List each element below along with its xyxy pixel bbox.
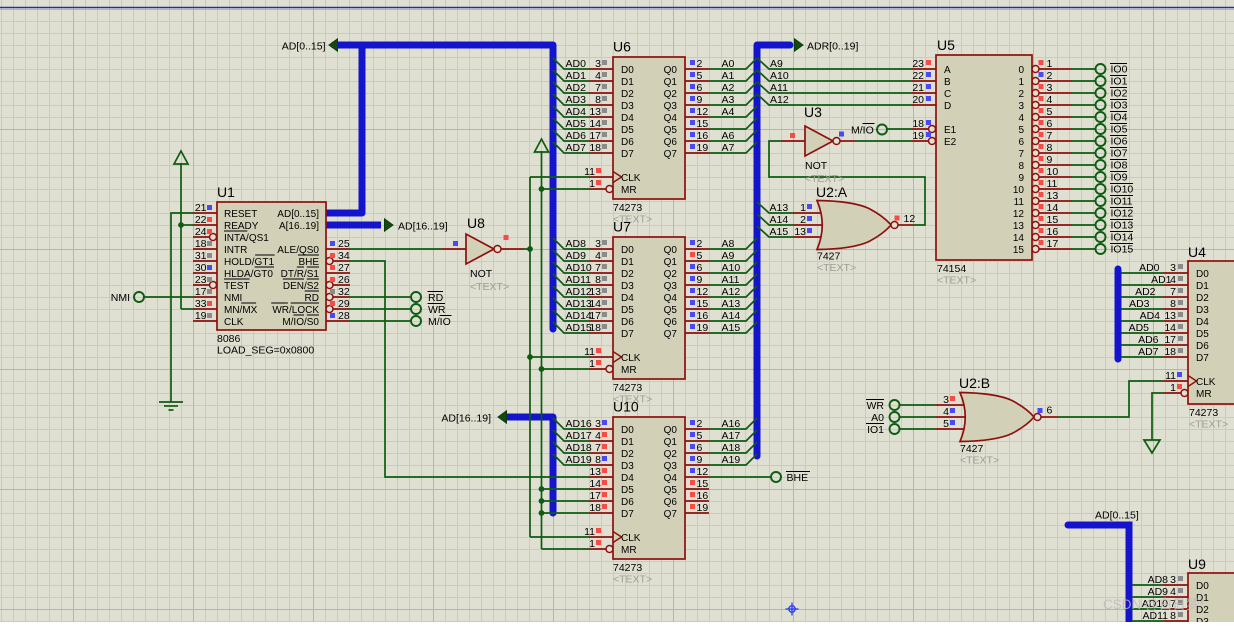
svg-text:D4: D4 xyxy=(1196,317,1209,328)
svg-text:CLK: CLK xyxy=(1196,377,1216,388)
wires terminals to U2:B inputs xyxy=(899,404,936,406)
wires A13 A14 A15 from ADR bus to U2:A inputs xyxy=(757,202,793,213)
svg-text:AD14: AD14 xyxy=(566,310,592,322)
svg-text:MN/MX: MN/MX xyxy=(224,305,258,316)
svg-text:3: 3 xyxy=(1170,574,1176,586)
svg-text:AD17: AD17 xyxy=(566,430,592,442)
svg-text:3: 3 xyxy=(595,418,601,430)
svg-text:7: 7 xyxy=(595,262,601,274)
svg-text:D6: D6 xyxy=(621,137,634,148)
terminal IO3 xyxy=(1096,100,1106,110)
svg-text:2: 2 xyxy=(697,58,703,70)
svg-text:D3: D3 xyxy=(621,101,634,112)
svg-text:IO14: IO14 xyxy=(1111,232,1134,244)
ground symbol below U1 xyxy=(159,401,183,403)
svg-text:14: 14 xyxy=(589,298,601,310)
svg-text:0: 0 xyxy=(1018,65,1024,76)
svg-text:AD12: AD12 xyxy=(566,286,592,298)
svg-text:7: 7 xyxy=(1170,286,1176,298)
state square at U3 input xyxy=(790,133,795,138)
wires AD0..AD7 from bus stub to U4 xyxy=(1121,272,1164,274)
svg-text:6: 6 xyxy=(1047,405,1053,417)
wire U1 RESET to ground xyxy=(171,213,193,402)
wire A9 from ADR bus to U5 xyxy=(757,58,912,69)
wire U1 WR to terminal xyxy=(350,308,411,310)
terminal IO7 xyxy=(1096,148,1106,158)
svg-text:1: 1 xyxy=(589,358,595,370)
junction VCC at U10 D7 xyxy=(539,510,545,516)
svg-text:12: 12 xyxy=(1013,209,1025,220)
wire U8 output to ALE vertical xyxy=(524,248,530,250)
svg-text:IO8: IO8 xyxy=(1111,160,1128,172)
svg-text:19: 19 xyxy=(697,502,709,514)
wire U5 output 12 to terminal IO12 xyxy=(1072,212,1096,214)
svg-text:A16: A16 xyxy=(722,418,741,430)
terminal BHE xyxy=(771,472,781,482)
state square at U2:A output xyxy=(895,216,900,221)
svg-text:19: 19 xyxy=(195,310,207,322)
svg-text:AD2: AD2 xyxy=(1135,286,1156,298)
wire U1 ALE/QS0 to U8 input xyxy=(350,248,442,250)
terminal IO5 xyxy=(1096,124,1106,134)
ALE vertical wire to latch clocks xyxy=(529,177,531,537)
svg-text:BHE: BHE xyxy=(298,257,319,268)
svg-text:U2:A: U2:A xyxy=(816,184,848,200)
svg-text:A9: A9 xyxy=(770,58,783,70)
state square at U8 output xyxy=(504,235,509,240)
svg-text:Q6: Q6 xyxy=(664,317,678,328)
svg-text:<TEXT>: <TEXT> xyxy=(613,574,652,586)
svg-text:7: 7 xyxy=(595,82,601,94)
svg-text:D2: D2 xyxy=(621,449,634,460)
svg-text:D2: D2 xyxy=(621,89,634,100)
svg-text:23: 23 xyxy=(195,274,207,286)
svg-text:M/IO/S0: M/IO/S0 xyxy=(282,317,319,328)
svg-text:RESET: RESET xyxy=(224,209,257,220)
svg-text:18: 18 xyxy=(195,238,207,250)
terminal WR at U2:B xyxy=(890,400,900,410)
svg-text:22: 22 xyxy=(912,70,924,82)
svg-text:13: 13 xyxy=(589,466,601,478)
svg-text:D7: D7 xyxy=(1196,353,1209,364)
terminal IO13 xyxy=(1096,220,1106,230)
bus entry arrow ADR[0..19] xyxy=(795,39,804,51)
svg-text:U6: U6 xyxy=(613,39,631,55)
svg-text:Q6: Q6 xyxy=(664,497,678,508)
svg-text:A15: A15 xyxy=(770,226,789,238)
wire U5 output 5 to terminal IO5 xyxy=(1072,128,1096,130)
svg-text:Q1: Q1 xyxy=(664,437,678,448)
wire A12 from ADR bus to U5 xyxy=(757,94,912,105)
terminal IO12 xyxy=(1096,208,1106,218)
svg-text:IO13: IO13 xyxy=(1111,220,1134,232)
svg-text:26: 26 xyxy=(338,274,350,286)
svg-text:8: 8 xyxy=(1018,161,1024,172)
svg-text:AD[0..15]: AD[0..15] xyxy=(1095,510,1139,522)
wire U1 RD to terminal xyxy=(350,296,411,298)
svg-text:18: 18 xyxy=(589,142,601,154)
svg-text:16: 16 xyxy=(697,490,709,502)
wire U5 output 8 to terminal IO8 xyxy=(1072,164,1096,166)
nor-gate U2:A 7427 xyxy=(793,184,913,274)
wire U4 MR to ground xyxy=(1152,393,1164,440)
wire U5 output 7 to terminal IO7 xyxy=(1072,152,1096,154)
svg-text:16: 16 xyxy=(697,130,709,142)
svg-text:19: 19 xyxy=(697,142,709,154)
svg-text:<TEXT>: <TEXT> xyxy=(470,281,509,293)
svg-text:AD18: AD18 xyxy=(566,442,592,454)
terminal WR xyxy=(411,304,421,314)
wire M/IO terminal to U5 E1 xyxy=(887,128,913,130)
svg-text:19: 19 xyxy=(912,130,924,142)
svg-text:A13: A13 xyxy=(722,298,741,310)
svg-text:2: 2 xyxy=(697,238,703,250)
svg-text:7427: 7427 xyxy=(817,251,841,263)
svg-text:5: 5 xyxy=(697,250,703,262)
bus entry arrow AD[0..15] top-left xyxy=(329,39,338,51)
svg-text:MR: MR xyxy=(1196,389,1212,400)
svg-text:Q3: Q3 xyxy=(664,281,678,292)
svg-text:9: 9 xyxy=(1047,154,1053,166)
wire U5 output 3 to terminal IO3 xyxy=(1072,104,1096,106)
svg-text:D6: D6 xyxy=(1196,341,1209,352)
svg-text:Q2: Q2 xyxy=(664,89,678,100)
svg-text:A17: A17 xyxy=(722,430,741,442)
svg-text:Q3: Q3 xyxy=(664,101,678,112)
svg-text:NOT: NOT xyxy=(470,268,493,280)
svg-text:9: 9 xyxy=(1018,173,1024,184)
svg-text:11: 11 xyxy=(584,526,595,538)
svg-text:IO4: IO4 xyxy=(1111,112,1128,124)
svg-text:D5: D5 xyxy=(621,305,634,316)
state square at U8 input xyxy=(453,241,458,246)
svg-text:11: 11 xyxy=(1047,178,1058,190)
svg-text:Q2: Q2 xyxy=(664,269,678,280)
svg-text:5: 5 xyxy=(697,70,703,82)
terminal IO0 xyxy=(1096,64,1106,74)
wire A10 from ADR bus to U5 xyxy=(757,70,912,81)
svg-text:23: 23 xyxy=(912,58,924,70)
junction ALE feed xyxy=(527,246,533,252)
svg-text:15: 15 xyxy=(1047,214,1059,226)
svg-text:AD3: AD3 xyxy=(566,94,587,106)
svg-text:U2:B: U2:B xyxy=(959,375,990,391)
svg-text:3: 3 xyxy=(1047,82,1053,94)
svg-text:D1: D1 xyxy=(1196,281,1209,292)
svg-text:D1: D1 xyxy=(621,437,634,448)
svg-text:17: 17 xyxy=(195,286,207,298)
svg-text:AD4: AD4 xyxy=(1140,310,1161,322)
svg-text:A8: A8 xyxy=(722,238,735,250)
svg-text:A[16..19]: A[16..19] xyxy=(279,221,319,232)
svg-text:AD[16..19]: AD[16..19] xyxy=(441,413,491,425)
cpu U1 8086 xyxy=(193,184,350,357)
svg-text:2: 2 xyxy=(697,418,703,430)
svg-text:Q7: Q7 xyxy=(664,509,678,520)
svg-text:D7: D7 xyxy=(621,509,634,520)
svg-text:28: 28 xyxy=(338,310,350,322)
wire U5 output 1 to terminal IO1 xyxy=(1072,80,1096,82)
terminal IO11 xyxy=(1096,196,1106,206)
svg-text:D1: D1 xyxy=(621,257,634,268)
nor-gate U2:B 7427 xyxy=(936,375,1057,467)
state square at U3 output xyxy=(839,132,844,137)
svg-text:14: 14 xyxy=(589,478,601,490)
svg-text:AD4: AD4 xyxy=(566,106,587,118)
svg-text:TEST: TEST xyxy=(224,281,250,292)
not-gate U3 xyxy=(781,104,856,185)
svg-text:31: 31 xyxy=(195,250,207,262)
svg-text:U8: U8 xyxy=(467,215,485,231)
terminal IO2 xyxy=(1096,88,1106,98)
svg-text:Q5: Q5 xyxy=(664,125,678,136)
svg-text:8: 8 xyxy=(595,274,601,286)
bus A[16..19] from U1 to arrow xyxy=(326,222,381,229)
power symbol VCC above latch column xyxy=(535,139,549,152)
svg-text:29: 29 xyxy=(338,298,350,310)
svg-text:13: 13 xyxy=(1013,221,1025,232)
terminal IO1 at U2:B xyxy=(890,424,900,434)
svg-text:4: 4 xyxy=(943,406,949,418)
svg-text:AD8: AD8 xyxy=(1148,574,1169,586)
svg-text:A15: A15 xyxy=(722,322,741,334)
svg-text:1: 1 xyxy=(589,538,595,550)
svg-text:5: 5 xyxy=(1047,106,1053,118)
svg-text:11: 11 xyxy=(1014,197,1025,208)
svg-text:A4: A4 xyxy=(722,106,735,118)
svg-text:8: 8 xyxy=(595,94,601,106)
svg-text:Q5: Q5 xyxy=(664,305,678,316)
svg-text:4: 4 xyxy=(1018,113,1024,124)
svg-text:15: 15 xyxy=(697,118,709,130)
svg-text:A11: A11 xyxy=(770,82,788,94)
svg-text:12: 12 xyxy=(697,466,709,478)
svg-text:AD[16..19]: AD[16..19] xyxy=(398,221,448,233)
svg-text:U9: U9 xyxy=(1188,556,1206,572)
svg-text:CLK: CLK xyxy=(224,317,244,328)
wire VCC to U6 MR xyxy=(542,188,590,190)
wires AD8..AD11 from bus to U9 xyxy=(1132,584,1164,586)
svg-text:AD[0..15]: AD[0..15] xyxy=(282,41,326,53)
svg-text:25: 25 xyxy=(338,238,350,250)
svg-text:AD8: AD8 xyxy=(566,238,587,250)
svg-text:AD3: AD3 xyxy=(1129,298,1150,310)
terminal M/IO at U5 E1 xyxy=(877,125,887,135)
svg-text:C: C xyxy=(944,89,951,100)
svg-text:D3: D3 xyxy=(1196,617,1209,622)
svg-text:12: 12 xyxy=(697,106,709,118)
wire VCC to U10 D5 xyxy=(542,488,590,490)
svg-text:17: 17 xyxy=(589,310,601,322)
svg-text:74273: 74273 xyxy=(613,562,642,574)
svg-text:AD10: AD10 xyxy=(566,262,592,274)
svg-text:17: 17 xyxy=(589,130,601,142)
svg-text:U1: U1 xyxy=(217,184,235,200)
svg-text:Q0: Q0 xyxy=(664,245,678,256)
svg-text:6: 6 xyxy=(1047,118,1053,130)
svg-text:D0: D0 xyxy=(621,65,634,76)
svg-text:D0: D0 xyxy=(1196,581,1209,592)
svg-text:ADR[0..19]: ADR[0..19] xyxy=(807,41,858,53)
svg-text:7427: 7427 xyxy=(960,443,984,455)
svg-text:A12: A12 xyxy=(722,286,741,298)
wire ALE to U7 CLK xyxy=(530,356,589,358)
svg-text:AD5: AD5 xyxy=(566,118,587,130)
svg-text:WR: WR xyxy=(428,304,446,316)
svg-text:11: 11 xyxy=(584,166,595,178)
svg-text:INTR: INTR xyxy=(224,245,247,256)
svg-text:Q5: Q5 xyxy=(664,485,678,496)
svg-text:Q1: Q1 xyxy=(664,257,678,268)
svg-text:1: 1 xyxy=(800,202,806,214)
svg-text:RD: RD xyxy=(428,292,444,304)
junction VCC at U7 MR xyxy=(539,366,545,372)
svg-text:3: 3 xyxy=(595,58,601,70)
svg-text:<TEXT>: <TEXT> xyxy=(960,455,999,467)
svg-text:D4: D4 xyxy=(621,113,634,124)
svg-text:74154: 74154 xyxy=(937,263,966,275)
svg-text:Q4: Q4 xyxy=(664,293,678,304)
svg-text:10: 10 xyxy=(1013,185,1025,196)
svg-text:D5: D5 xyxy=(621,485,634,496)
svg-text:21: 21 xyxy=(195,202,207,214)
svg-text:16: 16 xyxy=(1047,226,1059,238)
svg-text:D2: D2 xyxy=(621,269,634,280)
svg-text:3: 3 xyxy=(1170,262,1176,274)
power symbol VCC near U1 xyxy=(174,151,188,164)
svg-text:NOT: NOT xyxy=(805,160,828,172)
svg-text:27: 27 xyxy=(338,262,350,274)
svg-text:10: 10 xyxy=(1047,166,1059,178)
bus AD[0..15] bottom-right to U9 xyxy=(1068,525,1129,622)
svg-text:13: 13 xyxy=(589,286,601,298)
svg-text:IO1: IO1 xyxy=(1111,76,1128,88)
svg-text:1: 1 xyxy=(1047,58,1053,70)
svg-text:AD13: AD13 xyxy=(566,298,592,310)
svg-text:74273: 74273 xyxy=(613,202,642,214)
svg-text:3: 3 xyxy=(1018,101,1024,112)
svg-text:6: 6 xyxy=(697,442,703,454)
net BHE wire from U1 BHE down and right to U10 D4 xyxy=(350,261,589,477)
svg-text:LOAD_SEG=0x0800: LOAD_SEG=0x0800 xyxy=(217,345,314,357)
terminal IO8 xyxy=(1096,160,1106,170)
svg-text:A12: A12 xyxy=(770,94,789,106)
svg-text:AD2: AD2 xyxy=(566,82,587,94)
svg-text:AD[0..15]: AD[0..15] xyxy=(277,209,319,220)
wire U5 output 14 to terminal IO14 xyxy=(1072,236,1096,238)
svg-text:3: 3 xyxy=(943,394,949,406)
svg-text:AD6: AD6 xyxy=(566,130,587,142)
svg-text:D0: D0 xyxy=(1196,269,1209,280)
svg-text:E2: E2 xyxy=(944,137,957,148)
svg-text:Q2: Q2 xyxy=(664,449,678,460)
terminal IO14 xyxy=(1096,232,1106,242)
junction VCC at U10 D6 xyxy=(539,498,545,504)
svg-text:19: 19 xyxy=(697,322,709,334)
svg-text:D0: D0 xyxy=(621,245,634,256)
wire VCC to U7 MR xyxy=(542,368,590,370)
svg-text:CLK: CLK xyxy=(621,353,641,364)
svg-text:AD7: AD7 xyxy=(1138,346,1159,358)
svg-text:13: 13 xyxy=(1047,190,1059,202)
svg-text:A: A xyxy=(944,65,951,76)
svg-text:17: 17 xyxy=(589,490,601,502)
svg-text:A6: A6 xyxy=(722,130,735,142)
svg-text:Q4: Q4 xyxy=(664,473,678,484)
svg-text:IO3: IO3 xyxy=(1111,100,1128,112)
svg-text:AD1: AD1 xyxy=(1151,274,1172,286)
junction on VCC line at READY row xyxy=(178,222,184,228)
svg-text:WR: WR xyxy=(867,400,885,412)
svg-text:IO11: IO11 xyxy=(1111,196,1133,208)
svg-text:Q3: Q3 xyxy=(664,461,678,472)
latch U10 74273 xyxy=(553,399,757,586)
svg-text:IO5: IO5 xyxy=(1111,124,1128,136)
svg-text:8086: 8086 xyxy=(217,333,241,345)
svg-text:7: 7 xyxy=(1018,149,1024,160)
svg-text:AD1: AD1 xyxy=(566,70,587,82)
svg-text:2: 2 xyxy=(1047,70,1053,82)
svg-text:A14: A14 xyxy=(770,214,789,226)
svg-text:15: 15 xyxy=(1013,245,1025,256)
svg-text:IO0: IO0 xyxy=(1111,64,1128,76)
svg-text:AD9: AD9 xyxy=(566,250,587,262)
svg-text:M/IO: M/IO xyxy=(428,316,451,328)
svg-text:A9: A9 xyxy=(722,250,735,262)
svg-text:A3: A3 xyxy=(722,94,735,106)
terminal NMI xyxy=(134,292,144,302)
bus entry arrow AD[16..19] at U10 xyxy=(498,411,507,423)
svg-text:14: 14 xyxy=(589,118,601,130)
svg-text:D4: D4 xyxy=(621,473,634,484)
svg-text:A19: A19 xyxy=(722,454,741,466)
svg-text:D2: D2 xyxy=(1196,293,1209,304)
svg-text:3: 3 xyxy=(595,238,601,250)
latch U6 74273 xyxy=(553,39,757,226)
wire U2:A output loop up to U3 input xyxy=(769,141,925,225)
terminal IO10 xyxy=(1096,184,1106,194)
svg-text:MR: MR xyxy=(621,185,637,196)
svg-text:MR: MR xyxy=(621,365,637,376)
svg-text:U3: U3 xyxy=(804,104,822,120)
svg-text:A0: A0 xyxy=(871,412,884,424)
svg-text:17: 17 xyxy=(1164,334,1176,346)
bus AD[0..15] horizontal top run into vertical drop at x=553 xyxy=(334,45,553,329)
svg-text:18: 18 xyxy=(1164,346,1176,358)
wire U5 output 4 to terminal IO4 xyxy=(1072,116,1096,118)
svg-text:D4: D4 xyxy=(621,293,634,304)
svg-text:21: 21 xyxy=(912,82,924,94)
svg-text:U5: U5 xyxy=(937,37,955,53)
svg-text:6: 6 xyxy=(697,82,703,94)
wire VCC to U10 D7 xyxy=(542,512,590,514)
origin marker crosshair xyxy=(786,603,799,616)
svg-text:A7: A7 xyxy=(722,142,735,154)
svg-text:20: 20 xyxy=(912,94,924,106)
svg-text:AD19: AD19 xyxy=(566,454,592,466)
svg-text:D7: D7 xyxy=(621,329,634,340)
svg-text:A10: A10 xyxy=(722,262,741,274)
wire ALE to U6 CLK xyxy=(530,176,589,178)
latch U7 74273 xyxy=(553,219,757,406)
svg-text:INTA/QS1: INTA/QS1 xyxy=(224,233,269,244)
svg-text:4: 4 xyxy=(1047,94,1053,106)
latch U9 74273 xyxy=(1142,556,1234,627)
bus stub feeding U4 data pins xyxy=(1115,269,1122,359)
svg-text:AD0: AD0 xyxy=(566,58,587,70)
wire U10 Q4 to BHE terminal xyxy=(709,476,772,478)
svg-text:1: 1 xyxy=(589,178,595,190)
